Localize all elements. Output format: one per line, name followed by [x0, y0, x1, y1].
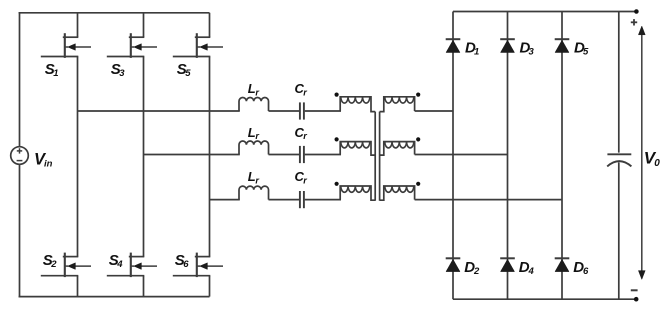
- transistor S2 (bottom switch of leg 1): [64, 253, 66, 278]
- svg-text:3: 3: [119, 68, 125, 79]
- node dot bottom-right output: [634, 297, 639, 302]
- wire T1 secondary to rectifier leg 1: [415, 110, 453, 112]
- V0 arrow (double-headed): [641, 32, 643, 273]
- svg-text:1: 1: [53, 68, 58, 79]
- voltage source Vin: [11, 147, 29, 165]
- transformer T3 primary winding: [340, 186, 375, 200]
- capacitor Cr (phase C): [299, 191, 301, 208]
- svg-text:4: 4: [528, 266, 535, 277]
- wire rectifier leg 3: [561, 12, 563, 300]
- svg-text:4: 4: [116, 259, 123, 270]
- wire transformer secondary star bus: [379, 112, 381, 201]
- capacitor C0 (output filter, polarized): [607, 153, 631, 155]
- inductor Lr (phase C): [239, 186, 269, 199]
- wire output capacitor top branch: [618, 12, 620, 153]
- wire Lr to Cr (phase C): [269, 199, 300, 201]
- svg-text:3: 3: [529, 47, 535, 58]
- diode D1: [446, 38, 461, 40]
- plus sign (output +): [631, 21, 637, 23]
- transformer T2 secondary winding: [380, 142, 415, 156]
- wire T3 secondary to rectifier leg 3: [415, 199, 562, 201]
- polarity dot T1 primary: [335, 93, 339, 97]
- svg-text:r: r: [303, 131, 307, 141]
- wire Lr to Cr (phase A): [269, 110, 300, 112]
- wire output capacitor bottom branch: [618, 162, 620, 299]
- wire top rail (rectifier): [453, 11, 636, 13]
- wire left rail upper segment: [19, 12, 21, 147]
- inductor Lr (phase B): [239, 141, 269, 154]
- wire phase A from leg 1 to Lr: [78, 110, 240, 112]
- svg-text:in: in: [44, 159, 53, 170]
- svg-text:r: r: [255, 87, 259, 97]
- transformer T2 primary winding: [340, 142, 375, 156]
- polarity dot T2 primary: [335, 137, 339, 141]
- wire transformer primary star bus: [374, 112, 376, 201]
- wire Cr to transformer T1 primary: [305, 110, 341, 112]
- wire leg 1 vertical segments: [77, 13, 79, 37]
- polarity dot T3 primary: [335, 182, 339, 186]
- svg-text:r: r: [255, 175, 259, 185]
- svg-text:6: 6: [583, 266, 589, 277]
- svg-text:2: 2: [50, 259, 57, 270]
- diode D4: [500, 257, 515, 259]
- wire T2 secondary to rectifier leg 2: [415, 154, 508, 156]
- svg-text:5: 5: [583, 47, 589, 58]
- transistor S1 (top switch of leg 1): [64, 33, 66, 58]
- transformer T3 secondary winding: [380, 186, 415, 200]
- capacitor Cr (phase B): [299, 146, 301, 163]
- wire Lr to Cr (phase B): [269, 154, 300, 156]
- minus sign (output -): [631, 289, 638, 291]
- wire top rail (inverter): [19, 12, 210, 14]
- wire phase B from leg 2 to Lr: [144, 154, 240, 156]
- polarity dot T2 secondary: [416, 137, 420, 141]
- svg-text:0: 0: [654, 158, 660, 169]
- svg-text:r: r: [255, 131, 259, 141]
- wire rectifier leg 2: [507, 12, 509, 300]
- svg-text:r: r: [303, 175, 307, 185]
- transformer T1 primary winding: [340, 97, 375, 112]
- transistor S3 (top switch of leg 2): [130, 33, 132, 58]
- diode D2: [446, 257, 461, 259]
- wire phase C from leg 3 to Lr: [210, 199, 240, 201]
- transistor S4 (bottom switch of leg 2): [130, 253, 132, 278]
- svg-text:1: 1: [474, 47, 479, 58]
- wire left rail lower segment: [19, 164, 21, 297]
- svg-text:2: 2: [473, 266, 480, 277]
- svg-text:6: 6: [183, 259, 189, 270]
- wire leg 3 vertical segments: [209, 13, 211, 37]
- polarity dot T1 secondary: [416, 93, 420, 97]
- transistor S5 (top switch of leg 3): [196, 33, 198, 58]
- polarity dot T3 secondary: [416, 182, 420, 186]
- svg-text:r: r: [303, 87, 307, 97]
- capacitor Cr (phase A): [299, 102, 301, 119]
- wire Cr to transformer T2 primary: [305, 154, 341, 156]
- svg-text:5: 5: [185, 68, 191, 79]
- transformer T1 secondary winding: [380, 97, 415, 112]
- wire bottom rail (inverter): [19, 296, 210, 298]
- diode D5: [555, 38, 570, 40]
- wire Cr to transformer T3 primary: [305, 199, 341, 201]
- diode D3: [500, 38, 515, 40]
- node dot top-right output: [634, 9, 639, 14]
- transistor S6 (bottom switch of leg 3): [196, 253, 198, 278]
- wire bottom rail (rectifier): [453, 298, 636, 300]
- diode D6: [555, 257, 570, 259]
- inductor Lr (phase A): [239, 98, 269, 111]
- wire leg 2 vertical segments: [143, 13, 145, 37]
- wire rectifier leg 1: [452, 12, 454, 300]
